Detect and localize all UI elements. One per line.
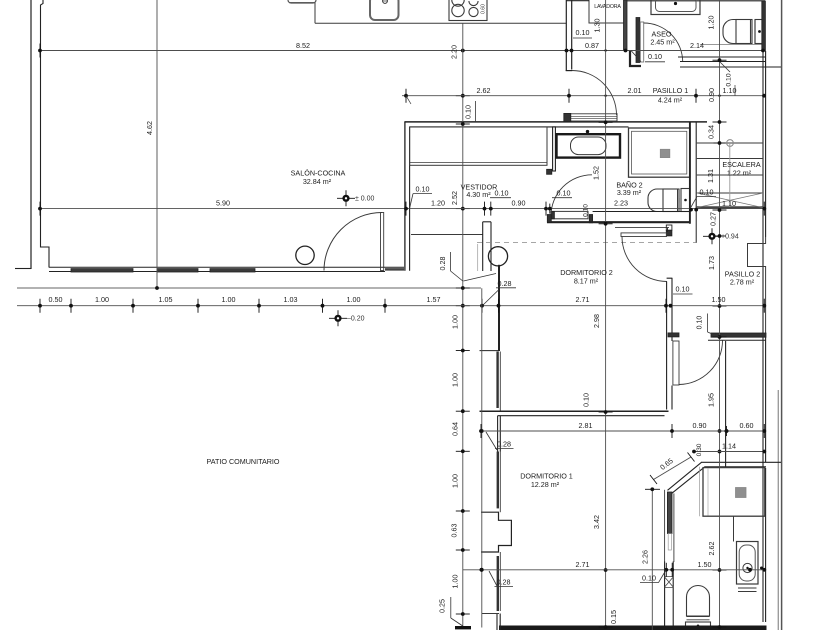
svg-text:PASILLO 1: PASILLO 1	[653, 86, 688, 95]
closet vestidor wardrobe	[410, 127, 547, 165]
svg-text:1.50: 1.50	[712, 295, 726, 304]
dim horizontal 1.14 line y451.5	[694, 451, 765, 453]
svg-text:0.28: 0.28	[497, 577, 511, 586]
toilet baño1 bowl	[687, 586, 710, 617]
stairs tread 4	[697, 192, 763, 194]
dim vertical right column x719.5	[719, 0, 721, 628]
wire faint hidden edge left of dashed	[477, 244, 479, 271]
wall baño1 top wall	[701, 461, 781, 463]
dim horizontal 2.81 line y431	[481, 430, 765, 432]
level marker -0.20	[329, 317, 347, 319]
wall kitchen-pasillo wall outer	[565, 0, 567, 71]
svg-text:PATIO COMUNITARIO: PATIO COMUNITARIO	[206, 457, 279, 466]
svg-text:0.10: 0.10	[557, 188, 571, 197]
sink baño1 basin	[739, 545, 755, 581]
radiator end cap	[564, 113, 571, 121]
window dorm1 window 1 dark	[497, 452, 499, 509]
shower baño2 tray inner	[632, 131, 687, 174]
vanity baño2 washbasin counter	[557, 134, 621, 157]
wall baño2 bottom wall left corner piece	[547, 215, 551, 223]
sink baño1 base lines	[738, 583, 757, 585]
door salon entrance arc	[324, 213, 382, 271]
svg-text:1.20: 1.20	[707, 16, 716, 30]
svg-text:1.05: 1.05	[159, 295, 173, 304]
wall baño1 bottom wall thick black	[499, 626, 767, 630]
svg-text:1.14: 1.14	[722, 442, 736, 451]
wall kitchen-pasillo wall end cap	[566, 70, 573, 72]
column circular pillar salon	[296, 246, 314, 264]
svg-text:1.10: 1.10	[722, 199, 736, 208]
svg-text:2.52: 2.52	[450, 191, 459, 205]
sink aseo washbasin outer	[651, 0, 700, 15]
wire dashed hidden line under stairs	[477, 242, 697, 244]
wall dorm2-dorm1 divider lower line	[498, 415, 665, 417]
dim vertical lavadora x605.6	[605, 0, 607, 628]
wire aseo toilet base line	[700, 44, 762, 46]
svg-text:1.73: 1.73	[707, 256, 716, 270]
wall salon bottom wall lower line	[49, 271, 385, 273]
svg-text:1.00: 1.00	[451, 315, 460, 329]
wall aseo bottom wall upper line	[678, 56, 766, 58]
dim horizontal 8.52 line	[40, 50, 763, 52]
svg-text:0.10: 0.10	[495, 188, 509, 197]
dim diagonal 0.65	[654, 457, 692, 480]
svg-text:0.50: 0.50	[49, 295, 63, 304]
svg-text:1.22 m²: 1.22 m²	[727, 169, 752, 178]
svg-text:2.01: 2.01	[628, 86, 642, 95]
toilet baño1 tank	[686, 622, 711, 630]
wire baño1 washbasin wall tick	[760, 567, 763, 570]
dim vertical dorm1 left x481.8	[481, 288, 483, 627]
faucet baño1 circle	[743, 563, 752, 572]
window baño1 pocket door frame	[664, 490, 666, 562]
wall top wall right of lavadora	[627, 0, 765, 2]
svg-text:2.62: 2.62	[707, 542, 716, 556]
stairs bottom edge thick	[697, 206, 763, 209]
wall right inner wall baño1	[765, 468, 767, 622]
svg-text:1.30: 1.30	[592, 19, 601, 33]
door dorm2 hinge block	[666, 230, 672, 236]
svg-text:2.14: 2.14	[690, 41, 704, 50]
svg-text:0.64: 0.64	[451, 422, 460, 436]
svg-text:0.10: 0.10	[642, 573, 656, 582]
wall aseo left wall	[636, 18, 640, 63]
sink baño1 washbasin outer	[737, 542, 759, 585]
svg-text:1.00: 1.00	[95, 295, 109, 304]
wire vestidor lower shelf line	[411, 234, 483, 236]
door salon-pasillo1 arc	[572, 71, 617, 116]
counter kitchen front edge	[315, 22, 566, 24]
svg-text:0.10: 0.10	[576, 28, 590, 37]
svg-text:1.57: 1.57	[427, 295, 441, 304]
wall pasillo2 bottom wall	[711, 333, 766, 337]
svg-text:0.90: 0.90	[693, 421, 707, 430]
svg-text:2.71: 2.71	[576, 560, 590, 569]
wall stairs-pasillo2 wall below	[695, 209, 697, 243]
wire 0.28 leader diagonal top	[486, 432, 497, 450]
label 0.10 above vestidor tick	[406, 96, 411, 104]
svg-text:0.28: 0.28	[497, 439, 511, 448]
svg-text:2.45 m²: 2.45 m²	[650, 37, 675, 46]
svg-text:2.81: 2.81	[579, 421, 593, 430]
burner stove burner small lower-right	[469, 7, 478, 16]
stairs tread 2	[697, 158, 763, 160]
wall right inner wall lower	[762, 337, 764, 622]
svg-text:0.10: 0.10	[700, 187, 714, 196]
burner stove burner big upper-left	[452, 0, 464, 6]
wall baño1 left wall hatch detail	[665, 577, 674, 588]
door aseo arc	[644, 23, 683, 62]
wire baño1 shower step line	[733, 517, 735, 542]
wire dorm1 small line near 614	[482, 613, 499, 615]
sink aseo washbasin bowl	[656, 0, 697, 12]
svg-text:ESCALERA: ESCALERA	[722, 160, 761, 169]
wall pasillo1 bottom wall inner line	[410, 126, 629, 128]
svg-text:1.00: 1.00	[347, 295, 361, 304]
svg-text:8.52: 8.52	[296, 41, 310, 50]
stairs lower flight line c	[615, 227, 669, 229]
svg-text:0.10: 0.10	[697, 316, 704, 330]
svg-text:0.10: 0.10	[583, 204, 590, 217]
shower baño1 tray	[703, 468, 765, 517]
svg-text:0.15: 0.15	[609, 610, 618, 624]
svg-text:12.28 m²: 12.28 m²	[531, 480, 560, 489]
dim vertical 4.62 line x157	[156, 0, 158, 288]
toilet baño2 hinge bars	[677, 189, 679, 211]
wall lavadora right wall thick	[624, 0, 628, 50]
stairs cross diagonal 1	[697, 193, 763, 208]
svg-text:0.28: 0.28	[498, 279, 512, 288]
burner stove burner small upper-right	[469, 1, 478, 6]
svg-text:3.39 m²: 3.39 m²	[617, 188, 642, 197]
dim horizontal dorm1 bottom y569.8	[463, 569, 765, 571]
svg-text:0.10: 0.10	[416, 184, 430, 193]
svg-text:5.90: 5.90	[216, 199, 230, 208]
faucet aseo washbasin tap	[674, 2, 677, 5]
wall vestidor left wall outer	[404, 122, 406, 271]
wall pasillo1 top line to exterior	[680, 66, 781, 68]
toilet aseo bowl	[723, 20, 752, 44]
door salon-pasillo1 leaf landing	[616, 113, 618, 121]
svg-text:8.17 m²: 8.17 m²	[574, 276, 599, 285]
wall baño2 bottom wall upper line	[593, 211, 691, 213]
svg-text:1.20: 1.20	[431, 199, 445, 208]
dim vestidor bottom line y208.6 = 5.90 line	[40, 208, 765, 210]
stairs tread 1	[697, 142, 763, 144]
svg-text:+0.94: +0.94	[721, 234, 739, 241]
svg-text:LAVADORA: LAVADORA	[594, 4, 621, 10]
dim horizontal 2.62 pasillo line y95.7	[402, 95, 764, 97]
wire exterior right wall line	[781, 0, 783, 630]
svg-text:1.00: 1.00	[222, 295, 236, 304]
counter kitchen left step	[289, 3, 315, 24]
faucet baño2 tap	[586, 130, 589, 133]
wall kitchen-pasillo wall inner	[571, 0, 573, 70]
level marker +-0.00	[337, 197, 355, 199]
svg-text:4.30 m²: 4.30 m²	[466, 190, 491, 199]
dim vertical 2.26 x652.3	[651, 489, 653, 630]
svg-text:0.10: 0.10	[463, 105, 472, 119]
wire leader 0.10 pasillo1	[720, 62, 730, 72]
svg-text:1.00: 1.00	[451, 575, 460, 589]
toilet baño2 tank	[681, 189, 690, 212]
svg-text:4.24 m²: 4.24 m²	[658, 95, 683, 104]
svg-text:1.31: 1.31	[706, 169, 715, 183]
vanity baño2 basin	[571, 137, 607, 155]
stairs tread 3	[697, 174, 763, 176]
svg-text:0.90: 0.90	[707, 88, 716, 102]
wire exterior left wall outer line	[30, 0, 32, 269]
window dorm2-patio frame line	[499, 352, 501, 412]
svg-text:0.87: 0.87	[585, 41, 599, 50]
wall pasillo2 niche	[748, 237, 766, 334]
wall vestidor-baño2 divider	[553, 127, 556, 171]
toilet aseo tank	[755, 20, 764, 44]
wall baño2 door jamb block	[547, 169, 552, 174]
wall salon nook - dorm2 divider double	[482, 222, 484, 271]
svg-text:0.10: 0.10	[582, 393, 591, 407]
faucet kitchen sink tap	[383, 0, 388, 3]
wall escalera left wall	[689, 122, 691, 224]
wall dorm1 left wall jog	[481, 512, 511, 552]
sink kitchen sink	[370, 0, 399, 20]
svg-text:32.84 m²: 32.84 m²	[303, 177, 332, 186]
burner stove burner big lower-left	[452, 4, 464, 16]
wire 0.28 lower leader	[489, 571, 497, 586]
wire patio wall bottom-left stub	[15, 268, 31, 270]
stairs cross diagonal 2	[697, 193, 763, 208]
svg-text:1.52: 1.52	[592, 166, 601, 180]
door baño2 leaf	[551, 211, 588, 218]
wall pasillo2 bottom wall left stub	[668, 333, 679, 337]
toilet baño2 bowl	[648, 189, 679, 212]
door aseo leaf	[640, 22, 643, 62]
shower baño2 tray outer	[629, 128, 691, 177]
stairs center rail line	[729, 143, 731, 207]
level marker +0.94	[703, 235, 721, 237]
dim horizontal patio bottom y305.7	[17, 305, 765, 307]
wall lavadora closet outline	[589, 0, 626, 23]
window dorm1 window 2 dark	[497, 556, 499, 611]
wire patio exterior line below salon	[17, 287, 481, 289]
window dorm2-patio window sill line	[480, 350, 500, 352]
wall baño2 bottom wall lower line thick	[547, 221, 690, 223]
svg-text:SALÓN-COCINA: SALÓN-COCINA	[291, 168, 346, 177]
svg-text:0.27: 0.27	[709, 212, 718, 226]
wire salon sill right of door	[385, 268, 404, 271]
door salon entrance leaf	[381, 213, 384, 271]
svg-text:–0.20: –0.20	[347, 316, 365, 323]
stairs newel circle	[727, 140, 734, 147]
svg-text:± 0.00: ± 0.00	[355, 196, 375, 203]
wall dorm2 left wall below column single	[498, 265, 500, 351]
svg-text:1.00: 1.00	[451, 474, 460, 488]
door baño2 arc	[551, 175, 592, 216]
cooktop stove rectangle	[449, 0, 487, 21]
door dorm2 arc	[622, 237, 667, 282]
wire exterior right wall second line lower	[777, 390, 779, 630]
dim vertical main left column x463	[462, 23, 464, 627]
wall vestidor left wall inner	[409, 127, 411, 271]
svg-text:0.10: 0.10	[648, 52, 662, 61]
wall aseo bottom-left corner piece	[630, 51, 641, 67]
wall pasillo1 bottom wall outer line	[404, 121, 707, 123]
wall salon bottom wall upper line	[49, 266, 404, 268]
window dorm2-patio glazing bar	[496, 352, 498, 409]
svg-text:0.60: 0.60	[740, 421, 754, 430]
door dorm2 leaf	[621, 233, 667, 237]
svg-text:0.10: 0.10	[676, 284, 690, 293]
wall kitchen top stub line	[566, 0, 589, 2]
window salon window band 2	[157, 269, 198, 272]
column circular pillar dorm2	[488, 247, 507, 266]
drain baño2 shower drain	[660, 149, 670, 157]
svg-text:2.20: 2.20	[449, 45, 458, 59]
svg-text:0.30: 0.30	[696, 443, 703, 456]
wall dorm1 left wall bottom piece	[496, 614, 498, 630]
wall right inner wall upper	[762, 51, 764, 334]
toilet baño1 seat lines	[687, 616, 710, 618]
wire baño1 pocket lower gray	[668, 534, 671, 551]
wall dorm1 left wall segment 1	[497, 416, 499, 452]
door baño1 sliding door dark bar	[667, 492, 672, 534]
svg-text:2.71: 2.71	[576, 295, 590, 304]
wire exterior left wall inner line with top step	[41, 0, 50, 268]
toilet aseo seat hinge bars	[750, 20, 752, 44]
toilet aseo flush dot	[758, 30, 761, 33]
svg-text:0.25: 0.25	[438, 599, 447, 613]
wall aseo right wall thick	[762, 1, 766, 51]
window salon window band 3	[210, 269, 255, 272]
svg-text:0.34: 0.34	[707, 125, 716, 139]
svg-text:0.63: 0.63	[450, 524, 459, 538]
appliance kitchen top-left unit	[288, 0, 316, 3]
toilet baño2 dot	[684, 199, 687, 202]
svg-text:2.62: 2.62	[477, 86, 491, 95]
wall aseo bottom wall lower line	[680, 61, 766, 63]
svg-text:1.00: 1.00	[451, 373, 460, 387]
door baño2 hinge jamb	[589, 215, 592, 223]
svg-text:2.78 m²: 2.78 m²	[730, 278, 755, 287]
svg-text:0.60: 0.60	[481, 4, 487, 14]
svg-text:0.90: 0.90	[512, 199, 526, 208]
svg-text:0.28: 0.28	[438, 257, 447, 271]
svg-text:1.95: 1.95	[707, 393, 716, 407]
svg-text:1.03: 1.03	[284, 295, 298, 304]
svg-text:1.50: 1.50	[698, 560, 712, 569]
svg-text:2.23: 2.23	[614, 199, 628, 208]
wall lobby-baño1 wall vertical	[725, 341, 727, 467]
door dorm1 entry arc	[679, 341, 722, 385]
svg-text:0.10: 0.10	[726, 73, 733, 86]
wall dorm2-dorm1 divider upper line	[480, 410, 669, 412]
wall baño1 left wall below door	[665, 562, 674, 630]
radiator pasillo1 towel radiator	[565, 114, 617, 121]
svg-text:2.98: 2.98	[592, 314, 601, 328]
svg-text:4.62: 4.62	[145, 121, 154, 135]
svg-text:3.42: 3.42	[592, 515, 601, 529]
wall dorm2-pasillo2 wall	[667, 278, 672, 410]
wall baño1 diagonal wall	[668, 462, 702, 490]
window salon window band 1	[71, 269, 133, 272]
door dorm1 entry leaf	[673, 341, 679, 385]
wall dorm2 top-right jamb stub	[666, 225, 672, 230]
drain baño1 shower drain	[736, 488, 747, 498]
svg-text:2.26: 2.26	[641, 550, 650, 564]
